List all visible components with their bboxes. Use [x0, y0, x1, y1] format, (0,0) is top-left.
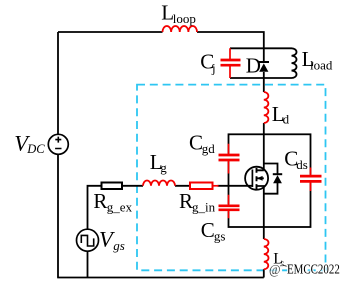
svg-text:g: g [160, 160, 167, 175]
svg-text:loop: loop [173, 11, 196, 26]
svg-text:d: d [283, 112, 290, 127]
svg-text:g_ex: g_ex [107, 200, 133, 215]
svg-text:j: j [211, 61, 216, 76]
svg-text:C: C [201, 218, 215, 242]
svg-text:g_in: g_in [192, 200, 216, 215]
svg-text:gs: gs [214, 228, 226, 243]
svg-text:EMCC2022: EMCC2022 [287, 261, 340, 276]
svg-text:ds: ds [296, 157, 308, 172]
svg-text:R: R [179, 189, 193, 213]
svg-text:load: load [310, 58, 333, 73]
svg-text:gd: gd [202, 141, 216, 156]
svg-text:gs: gs [113, 238, 125, 253]
svg-text:R: R [93, 189, 107, 213]
svg-text:D: D [246, 53, 261, 77]
svg-text:s: s [280, 258, 284, 270]
svg-text:DC: DC [26, 142, 45, 156]
